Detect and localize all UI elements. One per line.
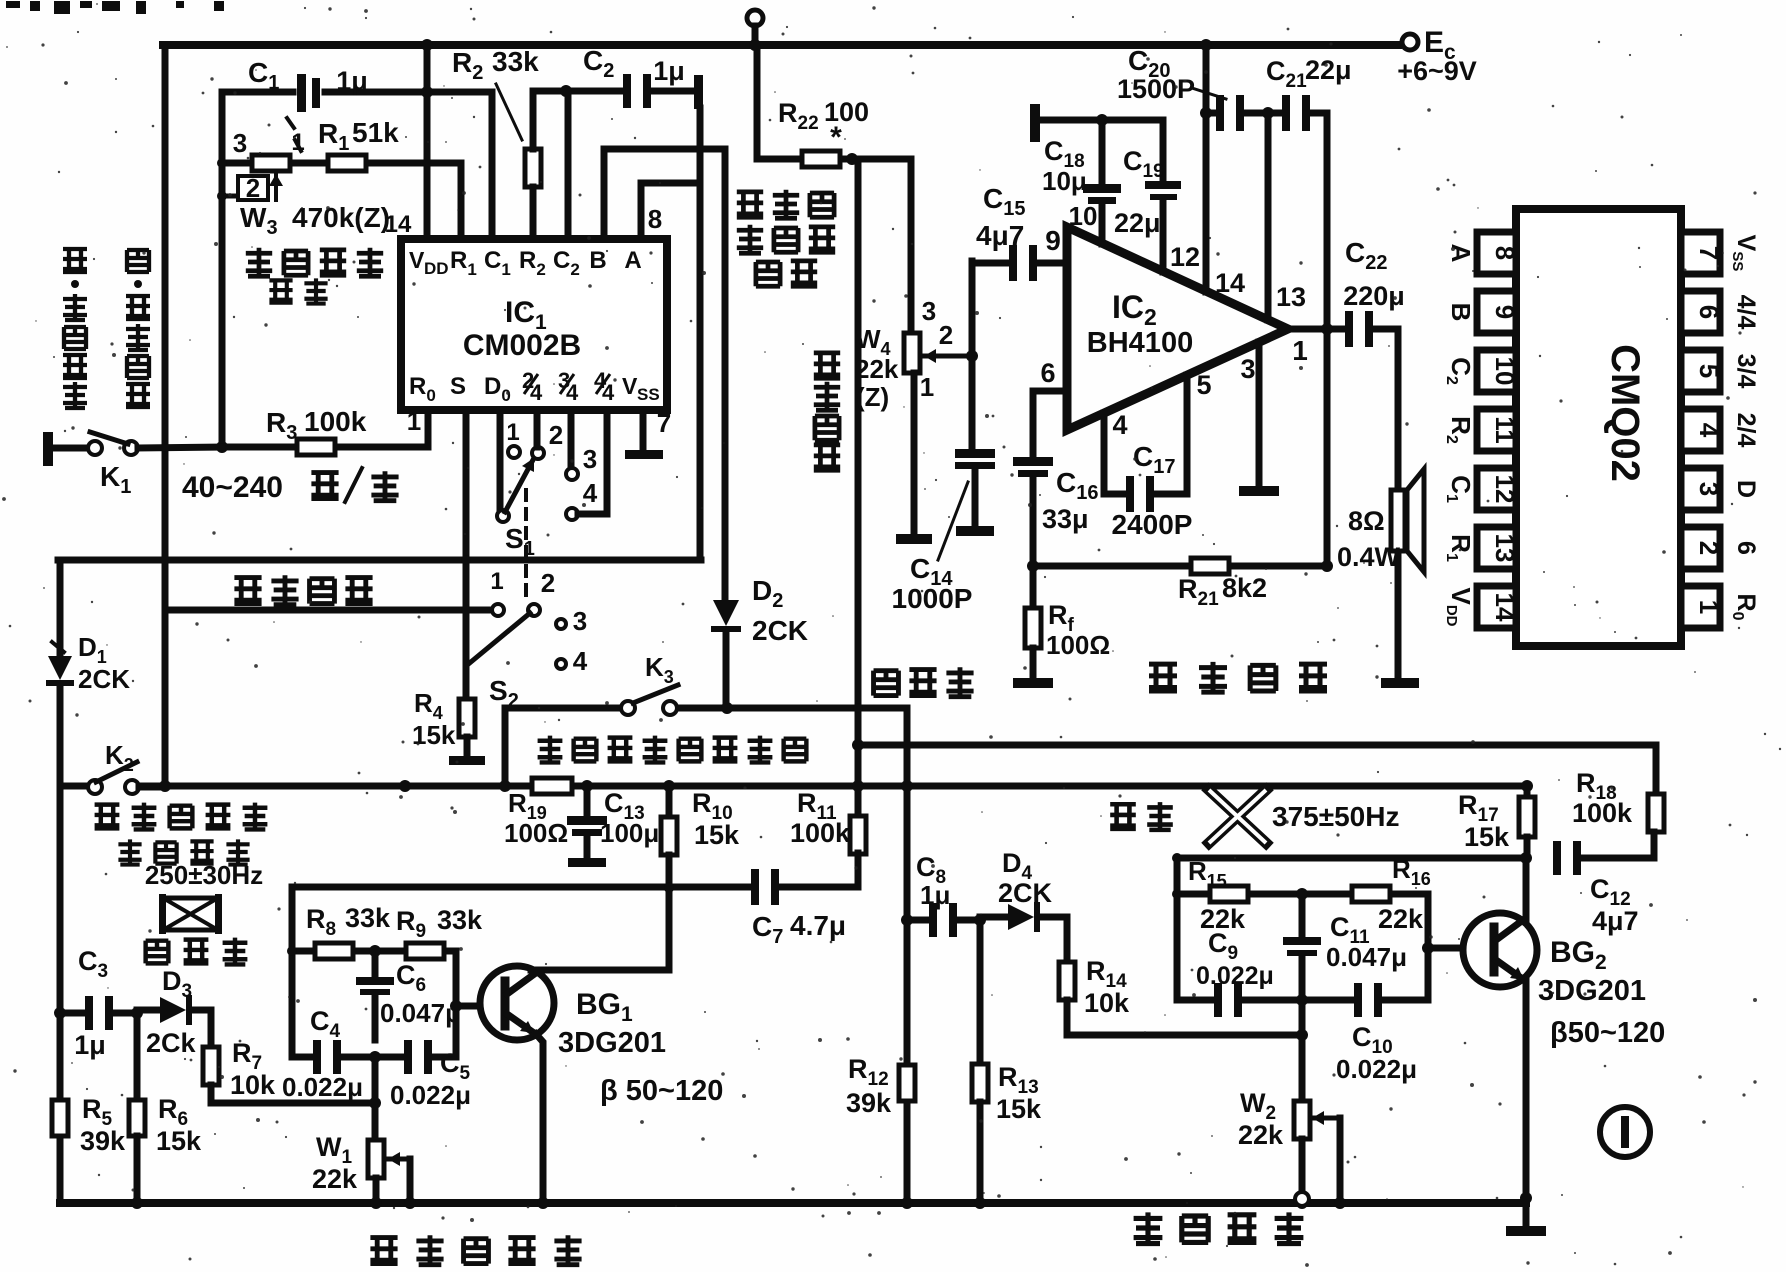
svg-text:D: D	[1732, 480, 1760, 498]
terminal bar C14	[956, 526, 994, 536]
wire: R22 branch	[754, 45, 761, 159]
wire: C3 node down R6	[134, 1013, 141, 1101]
wire: R2-C2 row	[533, 88, 624, 95]
switch S1 contact 3	[566, 468, 578, 480]
wire: y119 bus with bar	[1030, 104, 1040, 142]
svg-text:4.7μ: 4.7μ	[790, 910, 846, 941]
capacitor C18	[1083, 184, 1121, 193]
svg-text:1000P: 1000P	[892, 583, 973, 614]
svg-text:100Ω: 100Ω	[1046, 630, 1110, 660]
wire: bus y610 to S2 contact1	[165, 607, 491, 614]
svg-text:10k: 10k	[230, 1070, 276, 1100]
wire: W3 row to R1 to pin R1	[222, 160, 253, 167]
wire: pin 3/4 to contact3	[568, 410, 575, 468]
svg-text:9: 9	[1490, 305, 1520, 319]
transistor Q1 BG1 3DG201	[480, 966, 554, 1040]
W3 wiper arrow	[274, 174, 278, 200]
ground (BG2 emitter rail)	[1523, 1198, 1530, 1224]
diode D1	[48, 656, 72, 680]
svg-text:22μ: 22μ	[1305, 55, 1352, 85]
W1 wiper	[388, 1157, 410, 1162]
wire: speaker drop	[1395, 329, 1402, 490]
label strike switch (da ji kai guan)	[118, 839, 141, 864]
wire: R14 to W2 node	[1067, 1032, 1302, 1039]
wire: W3 left vertical	[219, 92, 226, 200]
svg-text:2/4: 2/4	[1732, 413, 1760, 448]
wire: pin13 vertical	[1265, 113, 1272, 320]
svg-text:3DG201: 3DG201	[1538, 975, 1646, 1007]
wire: left vertical W3-K1	[219, 200, 226, 447]
svg-text:2: 2	[246, 173, 260, 203]
resistor R16	[1352, 886, 1390, 902]
wire: left border vertical	[162, 45, 169, 786]
svg-text:5: 5	[1196, 370, 1211, 400]
potentiometer W1	[368, 1140, 384, 1178]
resistor R22	[802, 151, 840, 167]
scan artifact: cropped text top edge	[6, 1, 20, 8]
pin 7 box (DIP right)	[1681, 232, 1720, 274]
wire: W4 bottom to bar	[911, 373, 918, 532]
svg-text:+6~9V: +6~9V	[1397, 56, 1477, 86]
switch S1 contact 2	[532, 447, 544, 459]
svg-text:3/4: 3/4	[1732, 354, 1760, 389]
wire: wiper node vertical	[969, 261, 976, 449]
capacitor C4	[313, 1040, 321, 1074]
svg-text:100k: 100k	[1572, 798, 1633, 828]
node C3-D3	[131, 1007, 143, 1019]
svg-text:3DG201: 3DG201	[558, 1027, 666, 1059]
wire: C21 corner down to output	[1324, 113, 1331, 566]
wire: K1 lead	[53, 445, 89, 452]
wire: long vertical to amp section	[855, 159, 862, 886]
svg-text:8: 8	[648, 204, 662, 234]
pin 14 box (DIP left pin)	[1477, 586, 1516, 628]
pin 4 box (DIP right)	[1681, 409, 1720, 451]
wire: low osc box left edge	[1174, 858, 1181, 1000]
switch S2 contact2	[528, 604, 540, 616]
ground (Rf)	[1013, 678, 1053, 688]
svg-text:β50~120: β50~120	[1550, 1017, 1665, 1049]
label mode column he-shoudong-daji	[127, 250, 149, 272]
svg-text:40~240: 40~240	[182, 471, 283, 504]
svg-text:22k: 22k	[1238, 1120, 1284, 1150]
svg-text:100k: 100k	[304, 406, 367, 437]
svg-text:2: 2	[1694, 541, 1724, 555]
svg-text:A: A	[624, 247, 641, 274]
capacitor C22	[1345, 311, 1353, 347]
svg-text:0.047μ: 0.047μ	[380, 998, 461, 1028]
svg-text:0.047μ: 0.047μ	[1326, 942, 1407, 972]
wire: wiper to left vertical	[222, 194, 236, 199]
svg-text:1: 1	[1694, 600, 1724, 614]
wire: top feedback rail y745	[858, 742, 1656, 749]
svg-text:22k: 22k	[855, 354, 899, 384]
drum symbol high	[163, 898, 218, 930]
resistor R1	[328, 155, 366, 171]
wire: output row pin1	[1288, 326, 1345, 333]
capacitor C5	[404, 1040, 412, 1074]
svg-text:1: 1	[920, 372, 934, 402]
label mode column duan-zidong-jiezou	[63, 249, 87, 272]
svg-text:15k: 15k	[412, 720, 456, 750]
svg-text:11: 11	[1490, 416, 1520, 444]
svg-text:2CK: 2CK	[78, 664, 130, 694]
wire: main mid rail y786	[139, 783, 533, 790]
wire: W2 node down	[1299, 1000, 1306, 1101]
svg-text:3: 3	[922, 296, 936, 326]
pin 12 box (DIP left pin)	[1477, 468, 1516, 510]
svg-text:14: 14	[1490, 593, 1520, 622]
wire: C15 row	[972, 260, 1006, 267]
svg-text:SS: SS	[637, 385, 660, 404]
svg-text:9: 9	[1045, 225, 1061, 256]
svg-text:12: 12	[1170, 242, 1200, 272]
svg-text:DD: DD	[424, 259, 449, 278]
pin D0 line to S1 common	[497, 410, 504, 511]
wire: box right edge	[1425, 894, 1432, 1000]
pin 11 box (DIP left pin)	[1477, 409, 1516, 451]
svg-text:39k: 39k	[80, 1126, 126, 1156]
svg-text:22k: 22k	[312, 1164, 358, 1194]
IC U1 box IC1 CM002B	[401, 239, 667, 410]
wire: A-pin loop	[638, 183, 645, 239]
svg-text:6: 6	[1040, 358, 1055, 388]
switch S1 contact 4	[566, 508, 578, 520]
pin 3 box (DIP right)	[1681, 468, 1720, 510]
svg-text:8Ω: 8Ω	[1348, 506, 1385, 536]
label manual low-drum strike switch	[538, 736, 563, 763]
resistor R8	[315, 943, 353, 959]
wire: pin Vss to ground	[640, 410, 647, 448]
wire: R7 row y1103	[211, 1100, 375, 1107]
svg-text:4: 4	[1694, 423, 1724, 438]
wire: BG1 collector up	[531, 967, 669, 974]
pin S line down to S2	[463, 410, 470, 666]
capacitor C11	[1299, 894, 1306, 937]
switch S1 blade	[505, 458, 534, 512]
resistor R12	[899, 1065, 915, 1101]
capacitor C3	[54, 1007, 66, 1019]
node: rail junction VDD line	[421, 39, 433, 51]
pin 2 box (DIP right)	[1681, 527, 1720, 569]
node: W2 bottom rail circle	[1295, 1192, 1309, 1206]
node: rail junction center terminal	[749, 39, 761, 51]
W4 wiper	[924, 354, 972, 359]
capacitor C9	[1214, 983, 1222, 1017]
svg-text:1μ: 1μ	[653, 56, 685, 86]
svg-text:14: 14	[385, 211, 412, 238]
switch K3	[621, 701, 635, 715]
svg-text:10: 10	[1069, 201, 1098, 231]
pin 10 box (DIP left pin)	[1477, 350, 1516, 392]
svg-text:A: A	[1446, 244, 1476, 263]
potentiometer W4	[904, 333, 920, 373]
svg-text:250±30Hz: 250±30Hz	[145, 860, 263, 890]
svg-text:3: 3	[583, 444, 597, 474]
terminal: Ec supply circle	[1402, 34, 1418, 50]
svg-text:15k: 15k	[156, 1126, 202, 1156]
svg-text:*: *	[830, 121, 842, 154]
label high-drum (gao yin gu)	[146, 941, 169, 964]
svg-text:100Ω: 100Ω	[504, 818, 568, 848]
label beat-circuit (jie pai dian lu)	[234, 578, 261, 604]
wire: K3 row / box top	[505, 705, 621, 712]
svg-text:470k(Z): 470k(Z)	[292, 202, 390, 233]
pin 5 box (DIP right)	[1681, 350, 1720, 392]
resistor R13	[977, 920, 984, 1064]
label amplifier-circuit (gong fang dian lu)	[1149, 664, 1177, 691]
potentiometer W2	[1294, 1101, 1310, 1139]
capacitor C12	[1553, 841, 1561, 875]
node: VDD crossing C1 row	[421, 86, 433, 98]
switch S1 contact 1	[508, 446, 520, 458]
resistor R4	[463, 666, 470, 698]
terminal: center supply circle	[747, 10, 763, 26]
switch S1 common contact	[497, 510, 509, 522]
wire: contact4 to pin 4/4	[578, 511, 607, 518]
svg-text:2CK: 2CK	[752, 615, 808, 646]
resistor R15	[1210, 886, 1248, 902]
resistor Rf 100ohm	[1030, 566, 1037, 609]
svg-text:3: 3	[1240, 354, 1255, 384]
svg-text:15k: 15k	[996, 1094, 1042, 1124]
wire: box bottom row C9 C10	[1177, 997, 1214, 1004]
svg-text:0.022μ: 0.022μ	[282, 1072, 363, 1102]
resistor R19 in rail	[532, 778, 572, 794]
wire: pin C1 drop	[489, 92, 496, 239]
capacitor C8	[907, 917, 930, 924]
switch S2 contact3	[556, 619, 566, 629]
svg-text:0.4W: 0.4W	[1337, 542, 1401, 572]
svg-text:8k2: 8k2	[1222, 573, 1267, 603]
wire: feedback row y887	[292, 884, 751, 891]
svg-text:3: 3	[573, 606, 587, 636]
wire: pin14 vertical	[1203, 45, 1210, 292]
wire: pin12 with C19	[1160, 120, 1167, 181]
ground (speaker)	[1381, 678, 1419, 688]
symbol circled 1	[1600, 1107, 1650, 1157]
svg-text:39k: 39k	[846, 1088, 892, 1118]
svg-text:4: 4	[573, 646, 588, 676]
label low-板 circuit (di ban dian lu)	[1134, 1212, 1163, 1243]
svg-text:100k: 100k	[790, 818, 851, 848]
svg-text:0.022μ: 0.022μ	[390, 1080, 471, 1110]
svg-text:2: 2	[541, 568, 555, 598]
svg-text:1: 1	[506, 419, 519, 446]
svg-text:V: V	[622, 373, 638, 399]
capacitor C20	[1216, 95, 1224, 131]
pin 13 box (DIP left pin)	[1477, 527, 1516, 569]
pin 9 box (DIP left B)	[1477, 291, 1516, 333]
wire: pin3 ground	[1256, 342, 1263, 486]
wire: main +Ec power rail	[163, 41, 1398, 49]
wire: pin C2 drop	[565, 91, 572, 239]
svg-text:1μ: 1μ	[920, 880, 950, 910]
node: pin C2 tap	[560, 85, 572, 97]
svg-text:6: 6	[1732, 541, 1760, 555]
switch S2 blade	[466, 613, 530, 666]
wire: pin4-C17-pin5 loop	[1101, 413, 1108, 494]
wire: left column x60	[57, 560, 64, 656]
ground (pin3)	[1239, 486, 1279, 496]
svg-text:S: S	[450, 373, 466, 400]
wire: R8 R9 row	[292, 948, 315, 955]
switch K1 contacts and blade	[88, 441, 102, 455]
svg-text:10: 10	[1490, 357, 1520, 386]
node: D2 junction	[721, 702, 733, 714]
switch S2 contact1	[492, 604, 504, 616]
terminal bar W4 pin1	[896, 534, 932, 544]
IC DIP package CM002 body	[1516, 209, 1681, 646]
wire: BG2 collector/emitter vertical	[1523, 858, 1530, 922]
resistor R3	[297, 439, 335, 455]
wire: BG2 base lead	[1428, 945, 1491, 952]
ground (IC1 Vss)	[625, 450, 663, 459]
wire: C4 C5 row	[292, 1054, 314, 1061]
capacitor C21	[1282, 95, 1290, 131]
wire: VDD pin line	[424, 45, 431, 239]
wire: C1 row	[222, 89, 293, 96]
resistor R2 body	[525, 149, 541, 187]
svg-text:13: 13	[1276, 282, 1306, 312]
transistor Q2 BG2 3DG201	[1463, 913, 1537, 987]
svg-text:15k: 15k	[1464, 822, 1510, 852]
svg-text:3: 3	[233, 128, 247, 158]
pin 8 box (DIP left A)	[1477, 232, 1516, 274]
wire: W4 top lead	[908, 159, 915, 334]
label connect-electronic-tone-circuit 3 lines	[737, 192, 763, 217]
switch S2 contact4	[556, 659, 566, 669]
svg-text:3: 3	[1694, 482, 1724, 496]
svg-text:33μ: 33μ	[1042, 504, 1089, 534]
capacitor C19	[1145, 181, 1181, 189]
svg-text:4: 4	[1112, 410, 1127, 440]
svg-text:2CK: 2CK	[998, 878, 1053, 908]
resistor R17	[1524, 786, 1531, 797]
wire: D3 corner to R7	[208, 1010, 215, 1047]
svg-text:22μ: 22μ	[1114, 208, 1161, 238]
wire: C20 C21 row	[1206, 110, 1216, 117]
svg-text:5: 5	[1694, 364, 1724, 378]
svg-text:B: B	[589, 247, 606, 274]
svg-text:1: 1	[1292, 335, 1308, 366]
node: R3 left junction	[216, 441, 228, 453]
capacitor C6	[372, 951, 379, 977]
svg-text:14: 14	[1215, 268, 1245, 298]
label connect-amplifier (jie gong fang)	[874, 671, 899, 696]
svg-text:2: 2	[549, 420, 563, 450]
capacitor C16	[1013, 457, 1053, 466]
W3 terminal 2 box	[238, 176, 268, 200]
W2 wiper	[1312, 1116, 1340, 1121]
svg-text:0.022μ: 0.022μ	[1196, 962, 1274, 990]
wire: bottom ground rail	[60, 1199, 1526, 1207]
wire: R12 vertical / box right edge	[904, 708, 911, 1066]
svg-text:4μ7: 4μ7	[976, 220, 1024, 251]
svg-text:1μ: 1μ	[336, 66, 368, 96]
node: S-line crossing	[461, 555, 471, 565]
svg-text:10μ: 10μ	[1042, 166, 1087, 196]
ground (R4)	[449, 756, 485, 765]
wire: pin10 with C18	[1099, 120, 1106, 184]
resistor R7	[203, 1047, 219, 1085]
capacitor C1	[297, 74, 306, 112]
resistor R10	[666, 786, 673, 817]
wire: BG1 base lead	[456, 1003, 503, 1010]
pin 1 box (DIP right)	[1681, 586, 1720, 628]
capacitor C17	[1126, 476, 1134, 512]
capacitor C2	[623, 74, 631, 108]
svg-text:4μ7: 4μ7	[1592, 906, 1639, 936]
X symbol low drum	[1209, 790, 1266, 843]
svg-text:33k: 33k	[492, 46, 539, 77]
op-amp U2 triangle IC2 BH4100	[1067, 227, 1288, 430]
svg-text:BH4100: BH4100	[1087, 327, 1193, 359]
svg-text:51k: 51k	[352, 117, 399, 148]
diode D4	[980, 914, 1008, 921]
svg-text:100μ: 100μ	[600, 818, 659, 848]
svg-text:B: B	[1446, 303, 1476, 322]
wire: low osc box top y858	[1177, 855, 1526, 862]
svg-text:15k: 15k	[694, 820, 740, 850]
svg-text:1: 1	[291, 129, 304, 156]
svg-text:2: 2	[939, 320, 953, 350]
scan tick near C1	[287, 118, 294, 128]
label manual high-drum (shou dong gao yin gu)	[95, 805, 120, 829]
diode D3	[137, 1007, 160, 1014]
label high-drum circuit (gao yin gu dian lu)	[370, 1238, 397, 1264]
dashed link S1-S2	[524, 490, 528, 600]
resistor R11	[850, 816, 866, 854]
resistor R9	[406, 943, 444, 959]
node: R22 out	[846, 153, 858, 165]
node: rail junction pin14 IC2	[1200, 39, 1212, 51]
wire: R2 verticals	[530, 91, 537, 149]
svg-text:1μ: 1μ	[74, 1030, 106, 1060]
wire: C6-C4 node down W1	[372, 1057, 379, 1103]
svg-text:4: 4	[530, 380, 543, 405]
label low-drum (di ban) + X symbol	[1110, 804, 1136, 829]
svg-text:6: 6	[1694, 305, 1724, 319]
svg-text:1: 1	[407, 406, 421, 436]
node C8-D4	[974, 914, 986, 926]
potentiometer W3 body	[252, 155, 290, 171]
speaker 8ohm 0.4W	[1391, 490, 1405, 551]
diode D2	[713, 600, 739, 626]
svg-text:CM002B: CM002B	[463, 329, 581, 362]
wire: R9-C5 vertical	[453, 951, 460, 1057]
resistor R14	[1064, 917, 1071, 962]
pin 6 box (DIP right)	[1681, 291, 1720, 333]
terminal bar C2 right	[694, 75, 703, 109]
wire: pin1 R0 to R3 row	[425, 410, 432, 447]
svg-text:1500P: 1500P	[1117, 74, 1195, 104]
resistor R6	[129, 1100, 145, 1136]
svg-text:12: 12	[1490, 475, 1520, 504]
resistor R21	[1191, 558, 1229, 574]
svg-text:V: V	[409, 247, 425, 273]
svg-text:2400P: 2400P	[1112, 509, 1193, 540]
svg-text:1: 1	[490, 568, 503, 595]
svg-text:375±50Hz: 375±50Hz	[1272, 801, 1399, 832]
switch K2	[60, 783, 88, 790]
capacitor C13 with ground	[584, 786, 591, 816]
wire: R15 R16 row	[1177, 891, 1210, 898]
wire: pin6 to C16	[1033, 388, 1067, 395]
svg-text:7: 7	[1694, 246, 1724, 260]
svg-text:4: 4	[602, 380, 615, 405]
svg-text:0.022μ: 0.022μ	[1336, 1054, 1417, 1084]
